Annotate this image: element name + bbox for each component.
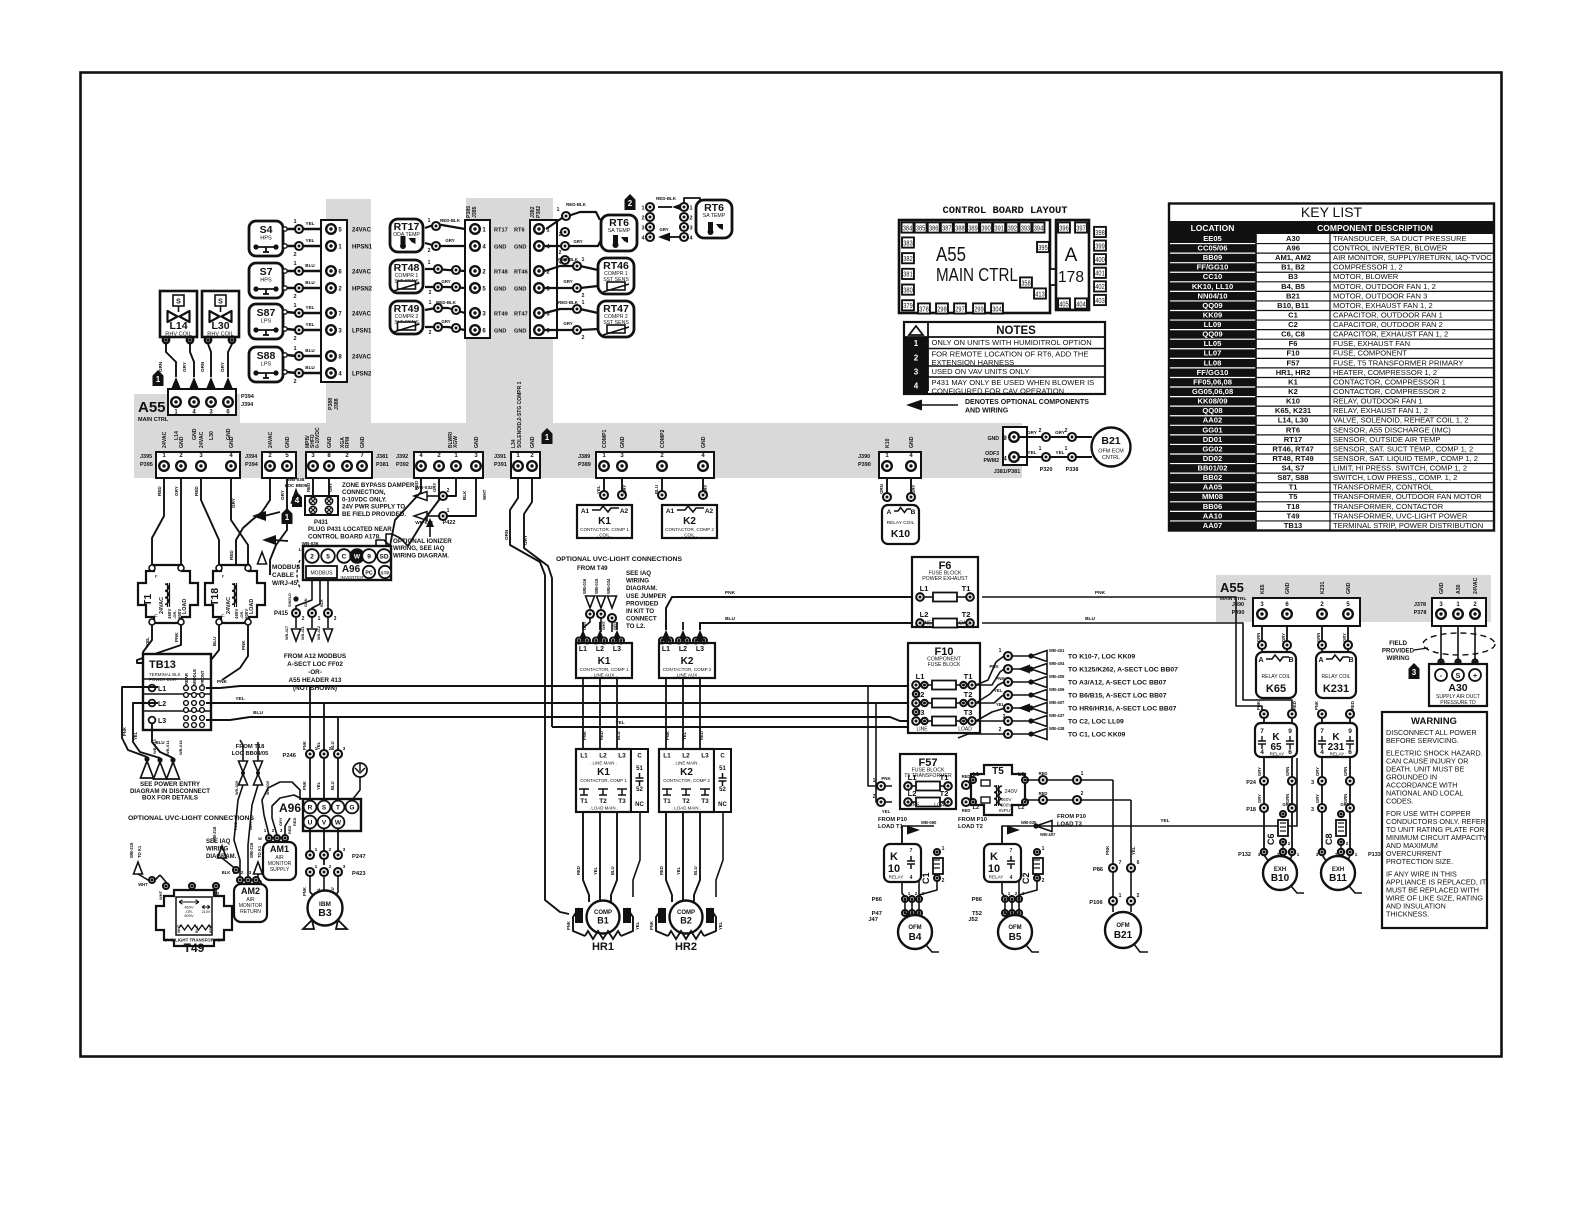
svg-text:PNK: PNK xyxy=(241,640,246,650)
svg-text:BB06: BB06 xyxy=(1203,502,1222,511)
svg-text:K1: K1 xyxy=(597,767,610,778)
svg-text:J395: J395 xyxy=(140,454,152,460)
svg-text:2: 2 xyxy=(1039,428,1042,434)
svg-text:P381: P381 xyxy=(376,462,389,468)
svg-text:1: 1 xyxy=(1042,846,1045,852)
svg-text:2: 2 xyxy=(329,847,332,853)
svg-text:TRANSFORMER, CONTACTOR: TRANSFORMER, CONTACTOR xyxy=(1333,502,1444,511)
svg-text:K10: K10 xyxy=(1286,397,1300,406)
svg-text:GND: GND xyxy=(1285,582,1291,594)
svg-text:GND: GND xyxy=(474,436,480,448)
svg-text:FUSE, T5 TRANSFORMER PRIMARY: FUSE, T5 TRANSFORMER PRIMARY xyxy=(1333,358,1463,367)
svg-text:THICKNESS.: THICKNESS. xyxy=(1386,910,1429,919)
svg-text:GRY: GRY xyxy=(703,485,708,494)
svg-text:P24: P24 xyxy=(1246,780,1257,786)
svg-text:C1: C1 xyxy=(1288,310,1298,319)
svg-text:A55: A55 xyxy=(1220,580,1244,595)
svg-text:HEATER, COMPRESSOR 1, 2: HEATER, COMPRESSOR 1, 2 xyxy=(1333,368,1437,377)
svg-text:GND: GND xyxy=(229,436,235,448)
svg-text:S: S xyxy=(176,299,181,306)
sensor RT17 ODA temp xyxy=(390,219,423,252)
wire L14-1 xyxy=(163,337,169,343)
connector P431 zone bypass xyxy=(312,478,314,496)
svg-text:2: 2 xyxy=(1288,841,1291,846)
svg-text:389: 389 xyxy=(968,223,977,232)
svg-text:1: 1 xyxy=(293,303,296,309)
svg-text:ZONE BYPASS DAMPER: ZONE BYPASS DAMPER xyxy=(342,482,415,489)
wire S87-2 xyxy=(287,329,327,330)
svg-text:L1: L1 xyxy=(908,773,917,782)
svg-text:WHT: WHT xyxy=(138,882,148,887)
svg-text:WB-034: WB-034 xyxy=(606,578,611,594)
svg-text:YEL: YEL xyxy=(718,921,723,930)
svg-text:J390: J390 xyxy=(1232,602,1244,608)
svg-text:24VAC: 24VAC xyxy=(352,270,372,276)
svg-text:ORN: ORN xyxy=(879,484,884,494)
svg-text:9: 9 xyxy=(1288,728,1292,735)
svg-text:L1: L1 xyxy=(579,646,587,653)
svg-text:BB01/02: BB01/02 xyxy=(1198,464,1228,473)
key list table xyxy=(1169,204,1494,531)
svg-text:OFM: OFM xyxy=(908,925,921,931)
svg-text:WB-412: WB-412 xyxy=(317,626,321,640)
svg-text:F6: F6 xyxy=(1289,339,1298,348)
svg-text:GRN: GRN xyxy=(1343,767,1348,776)
svg-text:BEFORE SERVICING.: BEFORE SERVICING. xyxy=(1386,736,1459,745)
svg-text:BLU: BLU xyxy=(305,348,315,353)
svg-text:TRANSFORMER, CONTROL: TRANSFORMER, CONTROL xyxy=(1333,483,1433,492)
svg-text:2: 2 xyxy=(310,554,314,561)
svg-text:2: 2 xyxy=(1081,791,1084,797)
svg-text:LOAD T1: LOAD T1 xyxy=(878,824,904,830)
svg-text:WB-407: WB-407 xyxy=(1049,700,1065,705)
note pennant 1 on band xyxy=(542,428,553,444)
svg-text:GRY: GRY xyxy=(441,279,450,284)
svg-text:3: 3 xyxy=(334,616,337,622)
svg-text:1: 1 xyxy=(315,847,318,853)
svg-text:GRY: GRY xyxy=(1281,633,1286,642)
svg-text:W: W xyxy=(354,554,361,561)
board A178 outline xyxy=(1056,220,1089,310)
svg-text:RT48, RT49: RT48, RT49 xyxy=(1272,454,1313,463)
svg-text:GRY: GRY xyxy=(1257,767,1262,776)
svg-text:3: 3 xyxy=(641,226,644,232)
svg-text:WB-405: WB-405 xyxy=(1049,674,1065,679)
svg-text:RT17: RT17 xyxy=(1284,435,1303,444)
svg-text:GND: GND xyxy=(360,436,366,448)
svg-text:PNK: PNK xyxy=(302,887,307,896)
svg-text:600V: 600V xyxy=(1000,803,1012,809)
svg-text:CONTACTOR, COMP 1: CONTACTOR, COMP 1 xyxy=(580,527,629,532)
svg-text:SD: SD xyxy=(379,554,388,561)
svg-text:WB-015: WB-015 xyxy=(594,578,599,594)
svg-text:CC05/06: CC05/06 xyxy=(1198,244,1228,253)
svg-text:24VAC: 24VAC xyxy=(352,355,372,361)
svg-text:INPUT: INPUT xyxy=(999,808,1013,814)
svg-text:RED-BLK: RED-BLK xyxy=(440,218,461,223)
air monitor AM2 xyxy=(234,884,267,922)
svg-text:SOLENOID,2-STG COMPR 1: SOLENOID,2-STG COMPR 1 xyxy=(517,381,523,448)
svg-text:RED-BLK: RED-BLK xyxy=(566,202,587,207)
svg-text:390: 390 xyxy=(981,223,990,232)
svg-text:BLU: BLU xyxy=(253,710,263,716)
wires RT46 xyxy=(545,266,598,271)
svg-text:J391: J391 xyxy=(494,454,506,460)
svg-text:4: 4 xyxy=(295,496,300,505)
svg-text:DD02: DD02 xyxy=(1203,454,1222,463)
svg-text:RED: RED xyxy=(233,821,238,830)
svg-text:TO L2.: TO L2. xyxy=(626,623,645,630)
svg-text:S: S xyxy=(1456,673,1461,680)
svg-text:GRY: GRY xyxy=(1315,794,1320,803)
svg-text:MAIN CTRL: MAIN CTRL xyxy=(138,417,169,423)
svg-text:RT49: RT49 xyxy=(494,312,508,318)
wires T1/T18 bottom xyxy=(143,625,155,688)
svg-text:10: 10 xyxy=(988,863,1000,875)
svg-text:WB-216: WB-216 xyxy=(249,842,254,858)
svg-text:C: C xyxy=(637,754,642,760)
svg-text:WHT: WHT xyxy=(601,620,606,630)
svg-text:WIRING: WIRING xyxy=(206,847,229,853)
svg-text:RELAY, EXHAUST FAN 1, 2: RELAY, EXHAUST FAN 1, 2 xyxy=(1333,406,1428,415)
svg-text:L2: L2 xyxy=(596,646,604,653)
svg-text:YEL: YEL xyxy=(1056,450,1065,455)
svg-text:RT6: RT6 xyxy=(1286,425,1300,434)
svg-text:K2: K2 xyxy=(1288,387,1298,396)
svg-text:YEL: YEL xyxy=(996,702,1005,707)
note pennant 2 xyxy=(625,194,636,210)
wires J378 to A30 xyxy=(1440,626,1442,667)
svg-text:GRY: GRY xyxy=(248,821,253,830)
relay K65 contacts xyxy=(1255,723,1297,757)
wires K65/K231 coil feeds xyxy=(1261,626,1263,652)
svg-text:WB-013: WB-013 xyxy=(152,739,157,754)
svg-text:2: 2 xyxy=(915,891,918,896)
svg-text:YEL: YEL xyxy=(682,731,687,740)
svg-text:24VAC: 24VAC xyxy=(268,431,274,448)
svg-text:WHT: WHT xyxy=(177,924,181,933)
connector J381/P381 outdoor fan ECM xyxy=(1003,427,1027,465)
svg-text:P106: P106 xyxy=(1089,900,1103,906)
svg-text:T: T xyxy=(336,805,340,812)
svg-text:A: A xyxy=(1065,245,1078,266)
svg-text:BLU: BLU xyxy=(610,866,615,875)
svg-text:OPTIONAL UVC-LIGHT CONNECTIONS: OPTIONAL UVC-LIGHT CONNECTIONS xyxy=(556,556,682,563)
svg-text:L2: L2 xyxy=(158,701,166,708)
svg-text:B: B xyxy=(1348,657,1353,664)
svg-text:VALVE, SOLENOID, REHEAT COIL 1: VALVE, SOLENOID, REHEAT COIL 1, 2 xyxy=(1333,416,1468,425)
svg-text:A1: A1 xyxy=(581,508,590,515)
svg-text:GND: GND xyxy=(701,436,707,448)
svg-text:A1: A1 xyxy=(666,508,675,515)
svg-text:RED: RED xyxy=(699,731,704,740)
svg-text:GND: GND xyxy=(514,287,526,293)
svg-text:LPS: LPS xyxy=(261,319,272,325)
svg-text:P86: P86 xyxy=(972,897,983,903)
svg-text:297: 297 xyxy=(955,304,964,313)
svg-text:SENSOR, SAT. SUCT TEMP., COMP: SENSOR, SAT. SUCT TEMP., COMP 1, 2 xyxy=(1333,444,1473,453)
svg-text:AM2: AM2 xyxy=(241,886,260,896)
svg-text:GRY: GRY xyxy=(573,239,582,244)
svg-text:LPSN1: LPSN1 xyxy=(352,329,372,335)
svg-text:J388: J388 xyxy=(334,398,340,410)
svg-text:RED: RED xyxy=(292,817,297,826)
svg-text:U: U xyxy=(308,820,313,827)
svg-text:C6: C6 xyxy=(1266,833,1276,845)
svg-text:T1: T1 xyxy=(580,798,588,805)
svg-text:K10: K10 xyxy=(891,528,910,540)
svg-text:RED: RED xyxy=(962,774,971,779)
svg-text:PNK: PNK xyxy=(1105,845,1110,855)
svg-text:C: C xyxy=(720,754,725,760)
note pennant 1 xyxy=(153,370,164,386)
relay K10 fan2 with capacitor C2 and motor B5 xyxy=(984,844,1021,882)
svg-text:GRN: GRN xyxy=(1256,633,1261,642)
svg-text:24VAC: 24VAC xyxy=(352,228,372,234)
svg-text:178: 178 xyxy=(1058,269,1084,286)
svg-text:RELAY: RELAY xyxy=(889,875,904,880)
svg-text:L14, L30: L14, L30 xyxy=(1278,416,1308,425)
svg-text:LIMIT, HI PRESS. SWITCH, COMP: LIMIT, HI PRESS. SWITCH, COMP 1, 2 xyxy=(1333,464,1467,473)
svg-text:9: 9 xyxy=(367,554,371,561)
wire J392 blower drops xyxy=(390,478,421,546)
svg-text:CONNECTION,: CONNECTION, xyxy=(342,489,386,496)
svg-text:B4, B5: B4, B5 xyxy=(1281,282,1305,291)
svg-text:L30: L30 xyxy=(211,320,229,332)
svg-text:B21: B21 xyxy=(1114,930,1133,941)
svg-text:CONFIGURED FOR CAV OPERATION: CONFIGURED FOR CAV OPERATION xyxy=(932,386,1065,395)
svg-text:CONTROL BOARD LAYOUT: CONTROL BOARD LAYOUT xyxy=(943,205,1068,217)
svg-text:LL08: LL08 xyxy=(1204,358,1222,367)
svg-text:RED: RED xyxy=(659,866,664,875)
svg-text:3: 3 xyxy=(280,828,283,833)
svg-text:GRY: GRY xyxy=(280,490,285,500)
svg-text:T18: T18 xyxy=(1286,502,1299,511)
board pin column right 398-403 xyxy=(1094,227,1106,237)
svg-text:ODA TEMP: ODA TEMP xyxy=(393,232,420,238)
wire S4-1 xyxy=(287,228,327,231)
svg-text:1: 1 xyxy=(1297,852,1300,857)
svg-text:P395: P395 xyxy=(140,462,153,468)
svg-text:V: V xyxy=(322,820,327,827)
svg-text:1: 1 xyxy=(1288,808,1291,813)
svg-text:380: 380 xyxy=(903,285,912,294)
svg-text:RELAY, OUTDOOR FAN 1: RELAY, OUTDOOR FAN 1 xyxy=(1333,397,1423,406)
svg-text:C2: C2 xyxy=(1021,872,1031,884)
svg-text:RED: RED xyxy=(414,481,419,490)
svg-text:BLU: BLU xyxy=(654,485,659,494)
svg-text:3: 3 xyxy=(1258,852,1261,857)
svg-text:CONTACTOR, COMP 2: CONTACTOR, COMP 2 xyxy=(665,527,714,532)
svg-text:. LINE AUX .: . LINE AUX . xyxy=(591,673,617,678)
svg-text:S88: S88 xyxy=(257,350,276,362)
svg-text:L3: L3 xyxy=(613,646,621,653)
svg-text:B10, B11: B10, B11 xyxy=(1277,301,1309,310)
fanout TO C1, LOC KK09 xyxy=(1004,730,1012,738)
svg-text:PRESSURE TD: PRESSURE TD xyxy=(1440,700,1476,706)
svg-text:CABLE: CABLE xyxy=(272,572,295,579)
svg-text:FROM T18: FROM T18 xyxy=(236,744,265,750)
svg-text:GRN: GRN xyxy=(158,361,163,372)
svg-text:RED-BLK: RED-BLK xyxy=(656,196,677,201)
svg-text:CONNECT: CONNECT xyxy=(626,616,657,623)
svg-text:LOC BB09: LOC BB09 xyxy=(285,483,308,488)
svg-text:BLU: BLU xyxy=(212,636,217,646)
svg-text:DIAGRAM.: DIAGRAM. xyxy=(206,854,237,860)
svg-text:B: B xyxy=(911,509,916,516)
svg-text:ODF3: ODF3 xyxy=(985,451,999,457)
wires RT6 to J382 xyxy=(546,212,600,229)
svg-text:F10: F10 xyxy=(1286,349,1299,358)
svg-text:P378: P378 xyxy=(1414,610,1427,616)
svg-text:RELAY: RELAY xyxy=(1270,752,1285,757)
svg-text:J378: J378 xyxy=(1414,602,1426,608)
svg-text:LOAD T3: LOAD T3 xyxy=(1057,822,1083,828)
svg-text:1: 1 xyxy=(689,206,692,212)
svg-text:2: 2 xyxy=(1065,428,1068,434)
svg-text:HR2: HR2 xyxy=(675,941,697,953)
svg-text:WARNING: WARNING xyxy=(1411,716,1457,727)
svg-text:RED: RED xyxy=(599,731,604,740)
svg-text:W: W xyxy=(335,820,342,827)
svg-text:358: 358 xyxy=(1021,278,1030,287)
svg-text:FROM P10: FROM P10 xyxy=(878,817,907,823)
motor B21 OFM ECM control circle xyxy=(1092,428,1131,467)
connector J392/P392 blower xyxy=(414,452,483,478)
svg-text:51: 51 xyxy=(636,766,643,772)
svg-text:GRY: GRY xyxy=(278,817,283,826)
svg-text:YEL: YEL xyxy=(316,781,321,790)
svg-text:0-10VDC ONLY.: 0-10VDC ONLY. xyxy=(342,496,387,503)
svg-text:RELAY: RELAY xyxy=(1330,752,1345,757)
solenoid valve L14 xyxy=(160,291,197,337)
board pin row top 384-394 xyxy=(902,222,914,232)
svg-text:2: 2 xyxy=(293,294,296,300)
svg-text:2: 2 xyxy=(293,336,296,342)
svg-text:COMP2: COMP2 xyxy=(660,429,666,448)
svg-text:T2: T2 xyxy=(682,798,690,805)
svg-text:DENOTES OPTIONAL COMPONENTS: DENOTES OPTIONAL COMPONENTS xyxy=(965,399,1089,406)
svg-text:1: 1 xyxy=(1039,446,1042,452)
svg-text:RETURN: RETURN xyxy=(240,909,261,915)
svg-text:KK08/09: KK08/09 xyxy=(1198,397,1228,406)
svg-text:B5: B5 xyxy=(1009,932,1022,943)
compressor B2 with heater HR2 xyxy=(666,812,672,902)
svg-text:B1: B1 xyxy=(597,916,609,926)
svg-text:T18: T18 xyxy=(209,588,221,606)
svg-text:BLU: BLU xyxy=(616,731,621,740)
svg-text:J394: J394 xyxy=(245,454,258,460)
svg-text:SUPPLY: SUPPLY xyxy=(270,867,290,873)
svg-text:YEL: YEL xyxy=(306,221,315,226)
svg-text:NOTES: NOTES xyxy=(996,325,1036,337)
svg-text:T3: T3 xyxy=(964,708,973,717)
svg-text:RED: RED xyxy=(209,925,213,933)
svg-text:GRY: GRY xyxy=(231,498,236,508)
svg-text:SWITCH, LOW PRESS., COMP. 1, 2: SWITCH, LOW PRESS., COMP. 1, 2 xyxy=(1333,473,1457,482)
svg-text:GRN: GRN xyxy=(1282,802,1291,807)
svg-text:FROM T49: FROM T49 xyxy=(577,565,608,572)
svg-text:TO K10-7, LOC KK09: TO K10-7, LOC KK09 xyxy=(1068,654,1135,661)
svg-text:299: 299 xyxy=(974,304,983,313)
svg-text:B3: B3 xyxy=(1288,272,1298,281)
svg-text:DD01: DD01 xyxy=(1203,435,1223,444)
svg-text:. COIL .: . COIL . xyxy=(597,533,613,538)
svg-text:B2: B2 xyxy=(680,916,692,926)
svg-text:YEL: YEL xyxy=(596,485,601,494)
capacitor C8 and exhaust fan B11 chain xyxy=(1321,757,1323,848)
wires F10 to fanout xyxy=(976,656,1004,685)
svg-text:A: A xyxy=(1318,657,1323,664)
svg-text:1: 1 xyxy=(999,648,1002,654)
svg-text:3: 3 xyxy=(249,870,252,875)
pressure switch S87 xyxy=(249,304,283,339)
svg-text:388: 388 xyxy=(955,223,964,232)
svg-text:USE JUMPER: USE JUMPER xyxy=(626,593,667,600)
svg-text:WIRING DIAGRAM.: WIRING DIAGRAM. xyxy=(393,552,449,559)
svg-text:391: 391 xyxy=(995,223,1004,232)
svg-text:T1: T1 xyxy=(1289,483,1299,492)
svg-text:BLU: BLU xyxy=(330,741,335,750)
svg-text:6: 6 xyxy=(1348,749,1352,756)
svg-text:393: 393 xyxy=(1021,223,1030,232)
svg-text:RED-BLK: RED-BLK xyxy=(558,257,579,262)
svg-text:PNK: PNK xyxy=(566,921,571,930)
svg-text:CONTROL BOARD A178.: CONTROL BOARD A178. xyxy=(308,534,381,541)
svg-text:WB-404: WB-404 xyxy=(1049,661,1065,666)
svg-text:LOCATION: LOCATION xyxy=(1191,223,1235,233)
svg-text:YEL: YEL xyxy=(882,809,891,814)
svg-text:PROVIDED: PROVIDED xyxy=(626,600,659,607)
svg-text:YEL: YEL xyxy=(235,696,244,702)
remote sensor RT6 connector column xyxy=(646,203,654,211)
svg-text:OFM: OFM xyxy=(1008,925,1021,931)
svg-text:AA02: AA02 xyxy=(1203,416,1222,425)
svg-text:INVERTER: INVERTER xyxy=(340,575,364,580)
wires into T49 xyxy=(160,875,166,890)
svg-text:BLU: BLU xyxy=(305,280,315,285)
svg-text:C1: C1 xyxy=(921,872,931,884)
sensor RT46 suction comp1 xyxy=(598,258,634,294)
svg-text:P394: P394 xyxy=(245,462,259,468)
svg-text:1: 1 xyxy=(233,870,236,875)
svg-text:LL07: LL07 xyxy=(1204,349,1222,358)
svg-text:K1: K1 xyxy=(598,656,611,667)
svg-text:PNK: PNK xyxy=(174,632,179,642)
svg-text:2: 2 xyxy=(873,794,876,800)
svg-text:600V: 600V xyxy=(184,913,194,918)
svg-text:J392: J392 xyxy=(396,454,408,460)
svg-text:NC: NC xyxy=(635,802,644,808)
wire K1 aux risers xyxy=(582,678,584,749)
solenoid valve L30 xyxy=(202,291,239,337)
svg-text:3: 3 xyxy=(1316,852,1319,857)
svg-text:COMP1: COMP1 xyxy=(602,429,608,448)
modbus cable bracket xyxy=(297,560,300,588)
svg-text:398: 398 xyxy=(1095,228,1104,237)
svg-text:PNK: PNK xyxy=(302,741,307,750)
contactor K1 load main xyxy=(576,749,631,812)
svg-text:GND: GND xyxy=(987,436,999,442)
svg-text:2: 2 xyxy=(914,353,919,362)
svg-text:MOTOR, OUTDOOR FAN 1, 2: MOTOR, OUTDOOR FAN 1, 2 xyxy=(1333,282,1436,291)
svg-text:1: 1 xyxy=(582,257,585,263)
svg-text:KEY LIST: KEY LIST xyxy=(1301,204,1363,220)
svg-text:YEL: YEL xyxy=(316,741,321,750)
svg-text:S87: S87 xyxy=(257,307,276,319)
svg-text:1: 1 xyxy=(293,261,296,267)
svg-text:T2: T2 xyxy=(599,798,607,805)
